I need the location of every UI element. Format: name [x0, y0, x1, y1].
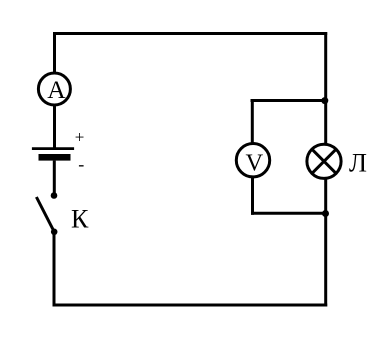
svg-text:A: A	[47, 75, 66, 104]
svg-text:Л: Л	[349, 148, 367, 178]
lamp L	[307, 144, 341, 178]
junction node top (voltmeter/lamp)	[321, 97, 328, 104]
wire voltmeter branch bottom	[251, 212, 326, 215]
svg-text:V: V	[246, 149, 264, 176]
svg-text:+: +	[75, 128, 85, 147]
lamp label L	[349, 148, 367, 178]
svg-text:-: -	[78, 154, 84, 174]
wire voltmeter branch left upper	[251, 101, 254, 146]
wire right rail lower (bottom corner to lamp)	[324, 177, 327, 307]
svg-text:К: К	[71, 204, 89, 233]
switch K bottom terminal dot	[51, 229, 58, 236]
wire switch to bottom-left corner	[53, 232, 56, 307]
voltmeter V	[236, 144, 269, 177]
switch label K	[71, 204, 89, 233]
wire voltmeter branch top	[252, 99, 326, 101]
switch K top terminal dot	[51, 192, 58, 199]
wire bottom rail	[53, 304, 328, 307]
battery positive plate	[32, 147, 74, 150]
wire top rail	[53, 32, 327, 35]
wire ammeter to battery	[53, 105, 56, 149]
wire voltmeter branch left lower	[251, 176, 254, 215]
wire left rail upper (top corner to ammeter)	[53, 32, 56, 74]
junction node bottom (voltmeter/lamp)	[322, 210, 329, 217]
wire lamp to top junction and top-right corner	[324, 32, 327, 146]
wire battery to switch	[53, 161, 56, 196]
battery polarity label +	[75, 128, 85, 147]
switch K blade (open)	[36, 197, 54, 232]
battery negative plate	[39, 154, 71, 161]
battery polarity label -	[78, 154, 84, 174]
ammeter A	[38, 73, 70, 105]
